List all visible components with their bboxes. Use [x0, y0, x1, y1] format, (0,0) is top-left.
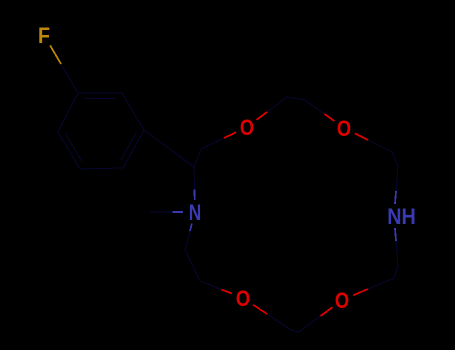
bond A3-A4	[123, 130, 144, 168]
aromatic inner line A5-A6	[66, 134, 82, 161]
bond C15-O16	[253, 305, 291, 330]
svg-text:O: O	[335, 288, 349, 313]
bond C14-C15	[291, 330, 299, 332]
svg-text:F: F	[38, 23, 50, 48]
bond C18-N1	[185, 224, 192, 250]
svg-text:N: N	[189, 200, 202, 225]
aromatic inner line A3-A4	[121, 133, 136, 160]
svg-text:O: O	[240, 115, 254, 140]
bond C2-C3	[194, 149, 201, 167]
bond C8-C9	[392, 152, 398, 166]
bond C17-C18	[185, 250, 200, 281]
bond C9-N10	[395, 166, 398, 204]
bond C12-O13	[353, 278, 394, 295]
aromatic inner line A1-A2	[84, 98, 116, 100]
svg-text:O: O	[236, 286, 250, 311]
svg-text:NH: NH	[387, 204, 416, 229]
bond A3-C2	[144, 130, 194, 167]
bond A4-A5	[80, 168, 123, 169]
bond N1-C2	[193, 167, 196, 200]
bond O4-C5	[257, 97, 287, 120]
bond N10-C11	[395, 228, 398, 266]
bond A1-A2	[78, 92, 122, 94]
bond O13-C14	[299, 307, 332, 332]
bond O7-C8	[355, 133, 392, 152]
bond C11-C12	[394, 266, 398, 278]
bond A2-A3	[122, 93, 144, 130]
bond A6-A1	[58, 93, 78, 132]
bond C6-O7	[305, 100, 334, 121]
bond N1-Me	[150, 211, 183, 213]
bond O16-C17	[200, 281, 232, 294]
bond C3-O4	[201, 132, 236, 149]
bond C5-C6	[287, 97, 305, 100]
bond A5-A6	[58, 132, 80, 169]
bond F-A1	[50, 45, 78, 93]
svg-text:O: O	[337, 116, 351, 141]
